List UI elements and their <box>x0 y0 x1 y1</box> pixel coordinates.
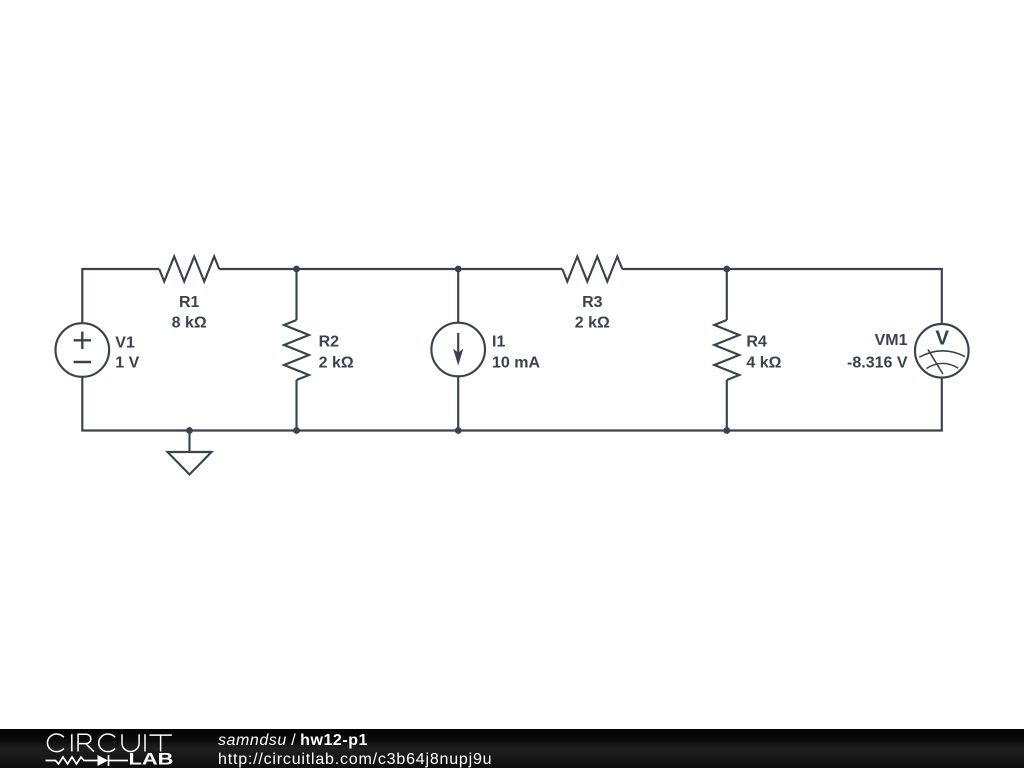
wire bottom rail <box>82 377 942 431</box>
node dot top I1 <box>455 266 462 273</box>
svg-text:1 V: 1 V <box>115 354 139 371</box>
svg-text:R1: R1 <box>179 294 200 311</box>
footer title samndsu / hw12-p1 <box>218 732 368 750</box>
svg-text:V: V <box>935 327 949 350</box>
T <box>149 735 172 751</box>
node dot bottom ground <box>186 427 193 434</box>
logo resistor and diode glyph <box>46 755 129 766</box>
U <box>122 734 139 751</box>
node dot bottom R4 <box>723 427 730 434</box>
svg-text:4 kΩ: 4 kΩ <box>746 354 781 371</box>
C <box>47 734 63 752</box>
wire R4 top stub <box>726 269 728 320</box>
wire top: R1 to R3 <box>219 268 562 270</box>
resistor R1 <box>159 257 219 282</box>
footer bar <box>0 729 1024 768</box>
wire top: V1 to R1 <box>82 269 159 323</box>
svg-text:R3: R3 <box>582 294 603 311</box>
node dot top R4 <box>723 266 730 273</box>
svg-text:10 mA: 10 mA <box>492 354 540 371</box>
voltage source V1 <box>56 323 110 377</box>
node dot bottom I1 <box>455 427 462 434</box>
logo diode triangle <box>98 755 109 766</box>
ground <box>168 431 212 475</box>
I <box>71 734 73 751</box>
footer url <box>218 751 492 769</box>
svg-text:2 kΩ: 2 kΩ <box>575 315 610 332</box>
node dot bottom R2 <box>293 427 300 434</box>
svg-text:VM1: VM1 <box>875 332 908 349</box>
svg-text:I1: I1 <box>492 334 505 351</box>
wire R2 bottom stub <box>295 380 297 431</box>
current source I1 <box>431 323 485 377</box>
svg-text:2 kΩ: 2 kΩ <box>319 354 354 371</box>
wire I1 top stub <box>457 269 459 323</box>
wire top: R3 to VM1 <box>622 269 942 323</box>
svg-text:LAB: LAB <box>129 750 174 768</box>
svg-text:8 kΩ: 8 kΩ <box>172 315 207 332</box>
I <box>144 734 146 751</box>
node dot top R2 <box>293 266 300 273</box>
wire R2 top stub <box>295 269 297 320</box>
svg-text:V1: V1 <box>115 334 135 351</box>
wire I1 bottom stub <box>457 377 459 431</box>
wire R4 bottom stub <box>726 380 728 431</box>
svg-text:-8.316 V: -8.316 V <box>847 354 908 371</box>
CircuitLab logo CIRCUIT wordmark <box>47 734 171 752</box>
R <box>78 734 94 751</box>
resistor R4 <box>714 320 739 380</box>
C <box>99 734 115 752</box>
voltmeter VM1 <box>915 324 969 378</box>
svg-text:R4: R4 <box>746 334 767 351</box>
resistor R2 <box>284 320 309 380</box>
resistor R3 <box>562 257 622 282</box>
svg-text:R2: R2 <box>319 334 340 351</box>
